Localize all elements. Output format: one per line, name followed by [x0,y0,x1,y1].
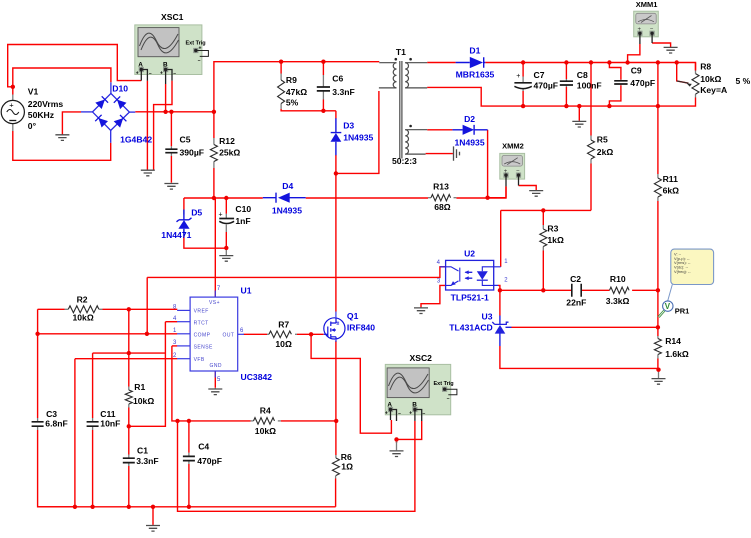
svg-text:VFB: VFB [194,357,205,363]
svg-text:VS+: VS+ [209,300,220,306]
svg-text:+: + [409,411,412,417]
svg-text:1.6kΩ: 1.6kΩ [665,349,689,359]
svg-text:V(freq): --: V(freq): -- [674,269,691,274]
svg-text:+: + [219,212,223,219]
svg-text:Key=A: Key=A [700,85,727,95]
svg-text:R1: R1 [134,382,145,392]
svg-text:10kΩ: 10kΩ [133,396,154,406]
svg-text:COMP: COMP [194,333,211,339]
svg-text:470pF: 470pF [630,78,655,88]
svg-text:C5: C5 [180,135,191,145]
svg-text:R4: R4 [260,405,271,415]
svg-text:−: − [198,58,201,64]
svg-text:6: 6 [240,328,244,334]
svg-text:R9: R9 [286,75,297,85]
svg-text:R5: R5 [597,135,608,145]
svg-text:D1: D1 [469,46,480,56]
svg-text:C4: C4 [198,442,209,452]
svg-text:3.3nF: 3.3nF [332,87,354,97]
svg-text:D4: D4 [282,181,293,191]
svg-text:U2: U2 [464,249,475,259]
svg-text:MBR1635: MBR1635 [456,70,495,80]
svg-text:Q1: Q1 [347,311,359,321]
svg-text:7: 7 [217,286,221,292]
svg-text:C10: C10 [235,204,251,214]
svg-text:TL431ACD: TL431ACD [449,323,492,333]
svg-text:C6: C6 [332,74,343,84]
svg-text:+: + [385,411,388,417]
svg-text:10kΩ: 10kΩ [73,313,94,323]
svg-text:XSC1: XSC1 [161,12,184,22]
svg-text:V1: V1 [28,87,39,97]
svg-text:C8: C8 [577,70,588,80]
svg-text:1N4471: 1N4471 [161,230,191,240]
svg-text:−: − [173,71,176,77]
svg-text:470pF: 470pF [197,456,222,466]
svg-text:1G4B42: 1G4B42 [120,135,152,145]
svg-text:2: 2 [173,353,177,359]
svg-text:2kΩ: 2kΩ [597,147,614,157]
svg-text:T1: T1 [396,47,406,57]
svg-text:UC3842: UC3842 [241,372,273,382]
svg-text:68Ω: 68Ω [434,202,451,212]
svg-text:5 %: 5 % [736,76,751,86]
svg-text:1N4935: 1N4935 [455,138,485,148]
svg-text:D10: D10 [112,84,128,94]
svg-text:+: + [199,45,202,51]
svg-text:D5: D5 [191,208,202,218]
svg-text:6kΩ: 6kΩ [663,186,680,196]
svg-text:10kΩ: 10kΩ [255,426,276,436]
svg-text:SENSE: SENSE [194,345,213,351]
svg-text:C2: C2 [570,274,581,284]
svg-text:C9: C9 [631,66,642,76]
svg-text:+: + [160,71,163,77]
svg-text:1nF: 1nF [235,216,250,226]
svg-text:−: − [149,71,152,77]
svg-text:2: 2 [504,278,508,284]
svg-text:3.3kΩ: 3.3kΩ [606,296,630,306]
svg-text:VREF: VREF [194,309,209,315]
svg-text:3.3nF: 3.3nF [136,456,158,466]
svg-text:R7: R7 [278,319,289,329]
svg-text:0°: 0° [28,121,37,131]
svg-text:R11: R11 [663,174,679,184]
svg-text:PR1: PR1 [675,307,690,316]
svg-text:RTCT: RTCT [194,320,209,326]
svg-text:6.8nF: 6.8nF [45,419,67,429]
svg-text:C1: C1 [137,445,148,455]
svg-text:−: − [447,396,450,402]
svg-text:GND: GND [210,363,222,369]
svg-text:D2: D2 [464,114,475,124]
svg-text:Ext Trig: Ext Trig [186,41,206,47]
svg-text:−: − [398,411,401,417]
svg-text:1: 1 [504,259,508,265]
svg-text:XMM1: XMM1 [636,0,658,9]
svg-text:U3: U3 [482,312,493,322]
svg-text:3: 3 [437,279,441,285]
svg-text:470µF: 470µF [534,81,559,91]
svg-text:5: 5 [217,377,221,383]
svg-text:1N4935: 1N4935 [343,133,373,143]
svg-text:R13: R13 [433,182,449,192]
svg-text:R14: R14 [665,336,681,346]
svg-text:1kΩ: 1kΩ [547,235,564,245]
svg-text:1N4935: 1N4935 [272,206,302,216]
svg-text:390µF: 390µF [180,148,205,158]
svg-text:220Vrms: 220Vrms [28,99,64,109]
svg-text:R10: R10 [610,274,626,284]
svg-text:+: + [516,73,520,80]
svg-text:U1: U1 [241,286,252,296]
svg-text:XMM2: XMM2 [502,142,524,151]
svg-text:5%: 5% [286,98,299,108]
svg-text:+: + [9,100,14,109]
svg-text:4: 4 [437,260,441,266]
svg-text:XSC2: XSC2 [410,353,433,363]
svg-text:D3: D3 [343,121,354,131]
svg-text:+: + [136,71,139,77]
svg-text:C7: C7 [534,70,545,80]
svg-text:25kΩ: 25kΩ [219,148,240,158]
svg-text:50KHz: 50KHz [28,110,54,120]
svg-text:C3: C3 [46,409,57,419]
svg-text:R2: R2 [77,294,88,304]
svg-text:10Ω: 10Ω [275,339,292,349]
svg-text:R12: R12 [219,136,235,146]
svg-text:TLP521-1: TLP521-1 [451,293,489,303]
svg-text:C11: C11 [100,409,116,419]
svg-text:1Ω: 1Ω [341,462,353,472]
svg-text:22nF: 22nF [566,298,586,308]
svg-text:R3: R3 [547,224,558,234]
svg-text:Ext Trig: Ext Trig [434,381,454,387]
svg-text:−: − [423,411,426,417]
svg-text:R8: R8 [700,62,711,72]
svg-text:OUT: OUT [223,332,235,338]
svg-text:100nF: 100nF [577,81,602,91]
svg-text:IRF840: IRF840 [347,323,375,333]
svg-text:10kΩ: 10kΩ [700,74,721,84]
svg-text:47kΩ: 47kΩ [286,87,307,97]
svg-text:50:2:3: 50:2:3 [392,156,417,166]
svg-text:V: V [665,302,671,311]
svg-text:10nF: 10nF [100,419,120,429]
